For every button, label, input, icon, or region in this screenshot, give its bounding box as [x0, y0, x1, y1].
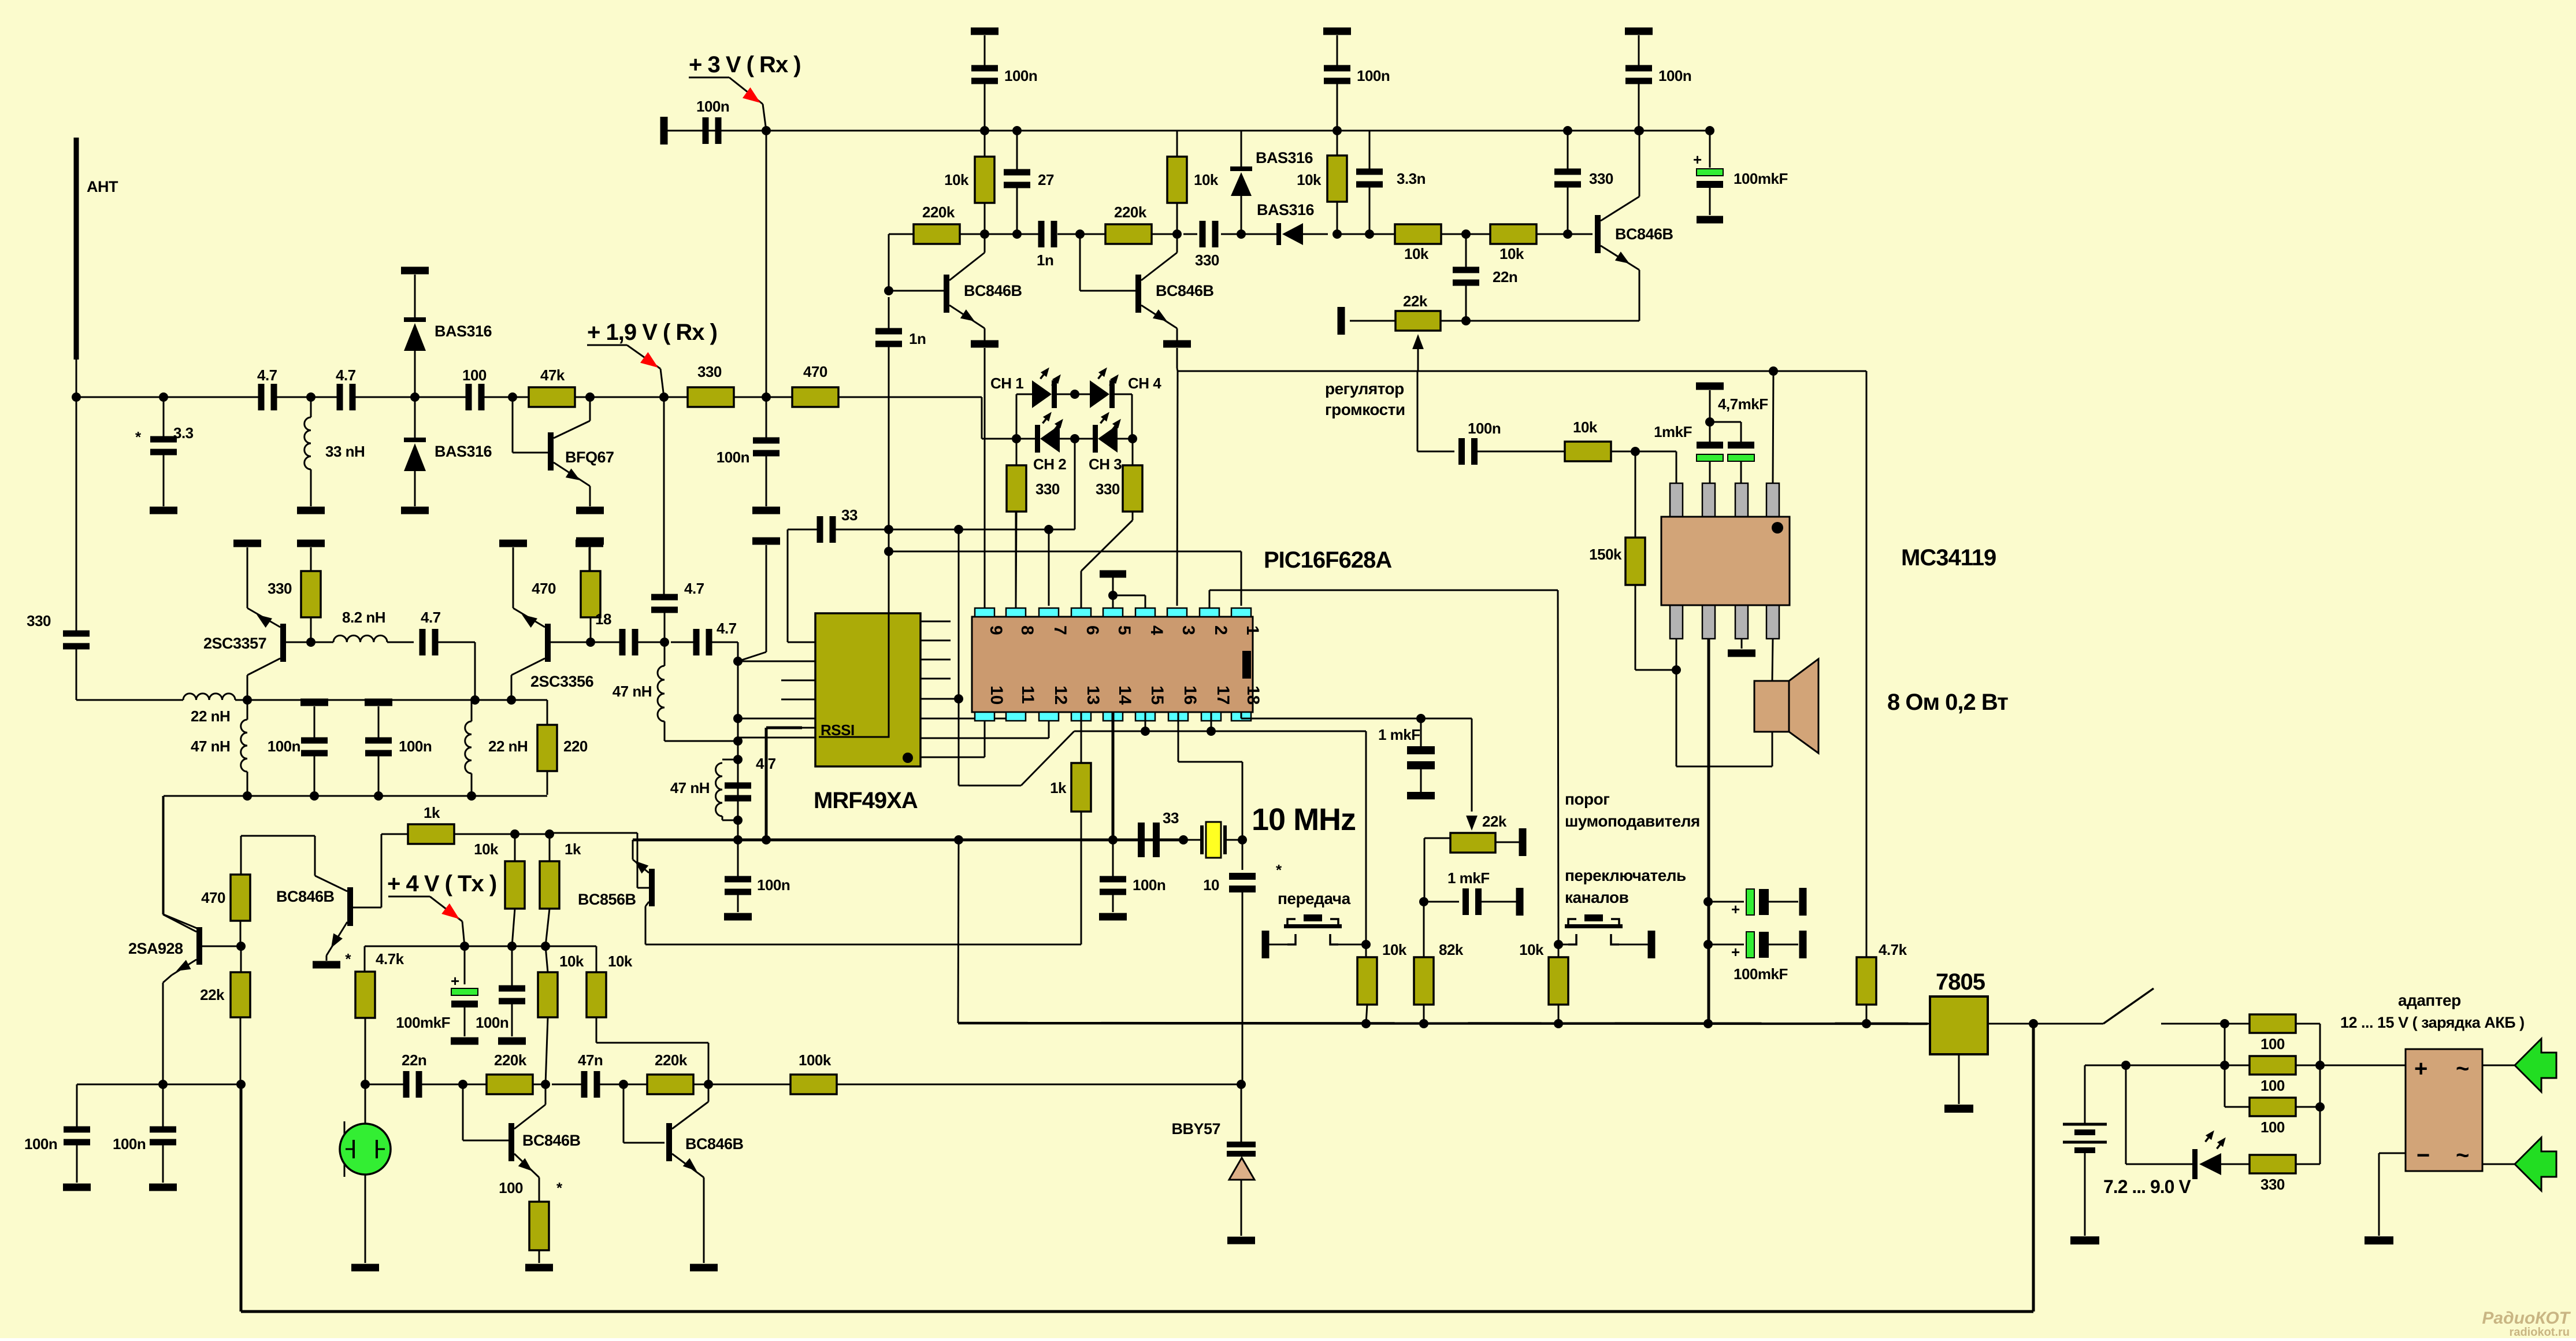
resistor 100 (chg c): [2250, 1098, 2296, 1116]
capacitor 100n (Tx supply): [511, 946, 513, 988]
node rail passacha: [1361, 940, 1371, 949]
wire RSSI drop through MRF: [888, 551, 890, 613]
inductor 47 nH (2SC3357 emitter): [247, 700, 248, 720]
node rail x1760: [1012, 126, 1022, 135]
node crystal right: [1238, 835, 1247, 844]
capacitor 100n (rail series left): [703, 117, 709, 144]
transistor BC846B amp1: [889, 290, 944, 292]
svg-text:5: 5: [1115, 625, 1134, 635]
svg-text:47n: 47n: [578, 1051, 603, 1069]
button transmit (peredacha): [1262, 931, 1270, 958]
svg-text:BFQ67: BFQ67: [565, 449, 614, 466]
svg-text:330: 330: [1195, 251, 1219, 269]
svg-text:16: 16: [1181, 686, 1200, 705]
PIC pin 9 pad: [975, 608, 994, 617]
svg-text:BAS316: BAS316: [1257, 201, 1315, 218]
svg-text:100n: 100n: [1468, 420, 1501, 437]
inductor 22 nH (horizontal): [76, 699, 183, 701]
svg-text:22k: 22k: [1403, 292, 1428, 310]
node pin5 supply: [1108, 591, 1118, 600]
PIC pin 3 pad: [1167, 608, 1187, 617]
svg-text:100: 100: [2261, 1118, 2285, 1136]
wire pad16 route: [1178, 712, 1179, 762]
bar supply 330 res: [297, 540, 325, 547]
node led col: [2121, 1061, 2130, 1070]
MRF right pins: [920, 621, 951, 623]
svg-text:47k: 47k: [540, 366, 565, 384]
wire pad15/PTT riser: [1365, 731, 1367, 944]
bar supply top column x2314: [1323, 28, 1351, 35]
wire Tx supply riser: [163, 796, 165, 914]
node cap33 right: [884, 525, 893, 534]
resistor 470 (2SA928 collector load): [231, 875, 250, 921]
wire RF row to LED block: [981, 397, 983, 439]
wire volume line: [1177, 368, 1178, 371]
electrolytic 100mkF b: [1703, 940, 1713, 949]
wire pad6 to CH3 diagonal: [1081, 571, 1082, 608]
svg-text:47 nH: 47 nH: [670, 779, 710, 797]
node pin1 bottom: [1672, 665, 1681, 675]
svg-text:BAS316: BAS316: [1256, 149, 1313, 166]
node +1.9V tap: [659, 392, 669, 402]
wire adapter out right b: [2482, 1164, 2515, 1165]
node 1k right: [545, 829, 554, 839]
node 7805 in: [2029, 1019, 2038, 1028]
wire pad3 riser: [1177, 371, 1178, 606]
svg-text:+: +: [1731, 901, 1740, 918]
node amp3 base: [1563, 229, 1572, 239]
svg-text:BAS316: BAS316: [435, 443, 492, 460]
wire y954 to PIC pin1: [889, 551, 1241, 553]
inductor 47 nH (mesh1 vertical): [664, 642, 666, 666]
capacitor 22n: [1453, 267, 1479, 273]
wire amp1 emitter to pad9: [984, 348, 986, 608]
svg-text:РадиоКОТ: РадиоКОТ: [2482, 1309, 2571, 1328]
svg-text:PIC16F628A: PIC16F628A: [1264, 547, 1391, 573]
node bus d (pin14): [1108, 835, 1118, 844]
LED CH1: [1032, 380, 1052, 408]
node battery+: [2220, 1019, 2229, 1028]
resistor 10k (squelch filter 1): [1395, 224, 1441, 244]
svg-text:−: −: [2417, 1143, 2429, 1168]
svg-text:12: 12: [1051, 686, 1070, 705]
svg-text:10k: 10k: [944, 171, 969, 188]
LED CH4: [1090, 380, 1109, 408]
resistor 150k (MC feedback): [1635, 451, 1636, 538]
diode BAS316 lower (to ground): [404, 438, 426, 442]
svg-text:100n: 100n: [1357, 67, 1390, 84]
node 330/470 row: [762, 392, 771, 402]
node mesh x1277 c: [733, 736, 743, 746]
svg-text:*: *: [556, 1179, 563, 1196]
resistor 220k (mic amp): [487, 1075, 533, 1094]
capacitor 18: [619, 629, 626, 655]
svg-text:100k: 100k: [799, 1051, 832, 1069]
wire +3V rail: [667, 130, 1710, 132]
capacitor 4.7 (RF coupling 2): [337, 384, 343, 410]
crystal 10 MHz: [1183, 839, 1202, 841]
PIC pin 7 pad: [1039, 608, 1059, 617]
wire amp2 base drop: [1079, 234, 1081, 291]
node bus a: [733, 835, 743, 844]
svg-text:33 nH: 33 nH: [325, 443, 365, 460]
capacitor 100n (mic gnd b): [162, 1084, 164, 1129]
svg-text:18: 18: [595, 610, 611, 628]
wire adapter out right a: [2482, 1065, 2515, 1066]
wire RF row: [76, 397, 260, 398]
svg-text:27: 27: [1038, 171, 1054, 188]
svg-text:6: 6: [1083, 625, 1102, 635]
svg-text:~: ~: [2456, 1143, 2469, 1168]
svg-text:1n: 1n: [1037, 251, 1053, 269]
svg-text:7805: 7805: [1936, 969, 1985, 995]
resistor 10k (PTT pulldown): [1365, 944, 1367, 957]
svg-text:330: 330: [1096, 480, 1120, 498]
svg-text:BC846B: BC846B: [964, 282, 1022, 299]
svg-text:BC856B: BC856B: [578, 891, 636, 908]
node volume to pin4: [1769, 366, 1778, 376]
svg-text:10k: 10k: [1404, 245, 1429, 262]
svg-text:3.3n: 3.3n: [1397, 170, 1426, 187]
transistor BC846B amp2: [1135, 275, 1141, 313]
resistor 470 (RF row): [792, 387, 838, 407]
node +4V tap: [460, 942, 469, 951]
capacitor 1 mkF (pad18 shunt): [1420, 718, 1422, 748]
node pad7 riser: [1044, 525, 1053, 534]
bar supply tap BFQ67 emitter: [576, 538, 604, 545]
node bus c: [954, 835, 963, 844]
node 1mkF tap: [1416, 714, 1426, 723]
node LED bot mid: [1070, 434, 1079, 443]
svg-text:MRF49XA: MRF49XA: [814, 788, 918, 813]
capacitor 100n column x1704: [971, 65, 998, 72]
svg-text:3.3: 3.3: [173, 424, 194, 442]
transistor BC846B (mod1): [352, 907, 381, 909]
resistor 10k (mod2 b): [587, 972, 606, 1017]
LED CH3: [1098, 425, 1118, 453]
svg-text:регулятор: регулятор: [1325, 380, 1404, 398]
node MRF pin tap: [954, 694, 963, 703]
svg-text:BBY57: BBY57: [1171, 1120, 1220, 1138]
node chg col a: [2315, 1061, 2325, 1070]
node chg col b: [2315, 1102, 2325, 1112]
svg-text:330: 330: [268, 580, 292, 597]
svg-text:22n: 22n: [1493, 268, 1517, 286]
IC MC34119: [1670, 483, 1683, 517]
diode BAS316 vertical (detector): [1241, 131, 1242, 166]
capacitor 33 (to MRF): [817, 516, 823, 543]
transistor BC846B (mod2): [666, 1123, 672, 1161]
capacitor 100n (bypass b): [365, 699, 392, 706]
svg-text:100mkF: 100mkF: [1734, 965, 1788, 983]
battery 7.2-9.0V: [2084, 1065, 2086, 1124]
svg-text:330: 330: [1589, 170, 1613, 187]
svg-text:8: 8: [1018, 625, 1037, 635]
svg-text:radiokot.ru: radiokot.ru: [2510, 1326, 2570, 1338]
node rail 4.7k: [1862, 1019, 1871, 1028]
wire to mod2 base: [623, 1084, 625, 1143]
button channel switch: [1558, 944, 1569, 946]
svg-text:220k: 220k: [655, 1051, 688, 1069]
svg-text:переключатель: переключатель: [1565, 866, 1686, 884]
wire +5V rail y1770 (thick): [958, 1023, 1928, 1024]
svg-text:1: 1: [1243, 625, 1262, 635]
resistor 100k: [790, 1075, 837, 1094]
node rail PTT: [1361, 1019, 1371, 1028]
svg-text:BC846B: BC846B: [1156, 282, 1214, 299]
node RF1: [159, 392, 168, 402]
svg-text:+: +: [1693, 151, 1702, 168]
svg-text:1 mkF: 1 mkF: [1447, 869, 1490, 887]
node y954: [884, 547, 893, 556]
svg-text:+: +: [1731, 943, 1740, 961]
wire adapter -: [2379, 1153, 2406, 1154]
svg-text:7: 7: [1051, 625, 1070, 635]
capacitor 100mkF (rail): [1705, 126, 1714, 135]
wire pad14 thick: [1112, 712, 1115, 840]
wire adapter +: [2320, 1065, 2406, 1066]
electrolytic 100mkF a: [1703, 897, 1713, 906]
svg-text:150k: 150k: [1589, 546, 1622, 563]
svg-text:4.7: 4.7: [684, 580, 704, 597]
svg-text:18: 18: [1244, 686, 1263, 705]
node BAS316 junction: [410, 392, 420, 402]
resistor 4.7k (supply): [1866, 957, 1868, 958]
svg-text:1 mkF: 1 mkF: [1378, 726, 1420, 743]
svg-text:7.2 ... 9.0 V: 7.2 ... 9.0 V: [2103, 1176, 2191, 1197]
node mesh x1277 a: [733, 657, 743, 666]
wire battery row: [2085, 1065, 2126, 1066]
node BFQ67 collector: [585, 392, 595, 402]
antenna ANT: [74, 138, 79, 360]
trimmer 22k (volume): [1395, 311, 1441, 331]
wire RSSI thick stub: [766, 727, 802, 729]
svg-text:1k: 1k: [424, 804, 440, 821]
node mic row a: [158, 1080, 168, 1089]
adapter box: [2406, 1049, 2482, 1171]
capacitor 100n (bypass a): [300, 699, 328, 706]
node 470 bottom: [586, 638, 595, 647]
node LED top mid: [1070, 390, 1079, 399]
node detector in: [1237, 229, 1246, 239]
LED CH2: [1040, 425, 1060, 453]
capacitor 100n column x2314: [1324, 65, 1350, 72]
green arrow a: [2515, 1039, 2556, 1092]
wire MC pin1 top: [1676, 451, 1677, 483]
wire bottom bus (thick): [240, 1084, 243, 1312]
svg-text:22n: 22n: [402, 1051, 426, 1069]
svg-text:10: 10: [1203, 876, 1219, 894]
wire LED left branch: [1016, 394, 1018, 439]
PIC pin 16 pad: [1168, 712, 1188, 721]
electrolytic 4,7mkF (pin2): [1696, 383, 1724, 390]
PIC pin 8 pad: [1006, 608, 1026, 617]
node rail x2837: [1635, 126, 1644, 135]
PIC pin 4 pad: [1135, 608, 1155, 617]
svg-text:470: 470: [201, 889, 225, 906]
node 2SC3357 lower: [243, 695, 252, 705]
node rail x2713: [1563, 126, 1572, 135]
IC PIC16F628A: [972, 617, 1253, 712]
capacitor 1n (amp1 base to RSSI net): [875, 328, 902, 335]
svg-text:100n: 100n: [1004, 67, 1037, 84]
PIC pin 11 pad: [1006, 712, 1026, 721]
capacitor 47n: [581, 1071, 588, 1098]
svg-text:4.7: 4.7: [421, 609, 441, 626]
IC MRF49XA: [815, 613, 920, 766]
svg-text:82k: 82k: [1439, 941, 1464, 958]
svg-text:100n: 100n: [113, 1135, 146, 1153]
capacitor 100n (pin13 area): [737, 840, 739, 879]
svg-text:каналов: каналов: [1565, 888, 1629, 906]
transistor BC846B amp3: [1595, 215, 1601, 253]
resistor 330 (chg led): [2250, 1155, 2296, 1173]
svg-text:1k: 1k: [1050, 779, 1067, 797]
inductor 33 nH to ground: [310, 397, 312, 417]
node LED bot right: [1128, 434, 1137, 443]
svg-text:100n: 100n: [24, 1135, 57, 1153]
node mic row b: [236, 1080, 246, 1089]
resistor 220k (amp2): [1105, 224, 1152, 244]
terminal bar rail left end: [660, 117, 668, 145]
svg-text:передача: передача: [1278, 890, 1351, 907]
PIC pin 17 pad: [1201, 712, 1221, 721]
wire cap33 to y954: [888, 529, 890, 551]
svg-text:2SC3357: 2SC3357: [203, 635, 266, 652]
svg-text:2: 2: [1211, 625, 1230, 635]
resistor 10k (amp2 collector): [1167, 157, 1187, 203]
svg-text:BC846B: BC846B: [1615, 225, 1673, 243]
trimmer 22k (squelch): [1450, 833, 1495, 853]
resistor 10k (Tx): [514, 834, 516, 862]
node x1659 on cap33 line: [954, 525, 963, 534]
svg-text:10k: 10k: [559, 953, 584, 970]
inductor 47 nH (mesh2) + capacitor 4.7 parallel: [733, 755, 743, 764]
svg-text:100n: 100n: [1658, 67, 1691, 84]
svg-text:+: +: [451, 972, 459, 990]
capacitor 27: [1004, 169, 1030, 176]
PIC pin 6 pad: [1071, 608, 1091, 617]
resistor 220: [547, 700, 548, 725]
switch power: [2033, 1023, 2103, 1025]
svg-text:22 nH: 22 nH: [488, 738, 528, 755]
node det2: [1365, 229, 1374, 239]
wire audio to MC input: [1417, 371, 1419, 451]
node x822: [470, 695, 480, 705]
LED charge indicator: [2125, 1065, 2127, 1164]
wire mesh col x1277: [737, 642, 739, 820]
svg-text:BAS316: BAS316: [435, 323, 492, 340]
svg-text:100n: 100n: [268, 738, 300, 755]
svg-text:1k: 1k: [565, 840, 581, 858]
node LED bot left: [1012, 434, 1021, 443]
svg-text:100mkF: 100mkF: [1734, 170, 1788, 187]
microphone (electret): [365, 1084, 366, 1124]
resistor 10k (audio in): [1565, 442, 1611, 461]
node 2SA928 base: [236, 942, 246, 951]
capacitor 3.3n: [1356, 169, 1383, 175]
transistor BC856B: [649, 869, 655, 906]
svg-text:8 Ом 0,2 Вт: 8 Ом 0,2 Вт: [1887, 690, 2008, 715]
capacitor 100mkF (Tx supply): [464, 946, 466, 984]
capacitor 1n (coupling amp1->amp2): [1038, 221, 1045, 247]
node 33nH tap: [306, 392, 315, 402]
wire drop x822: [474, 642, 476, 700]
svg-text:4.7: 4.7: [336, 366, 356, 384]
resistor 10k (squelch filter 2): [1490, 224, 1536, 244]
svg-text:22k: 22k: [1482, 813, 1507, 830]
transistor 2SC3356: [545, 624, 551, 662]
node chsw: [1554, 940, 1563, 949]
capacitor 33 (crystal series): [1138, 823, 1145, 857]
capacitor 330 (amp3 collector): [1554, 169, 1581, 175]
bar supply tap 100n column: [752, 538, 780, 545]
node mic amp col: [541, 1080, 550, 1089]
svg-text:1n: 1n: [909, 330, 926, 347]
node filter mid: [1461, 229, 1471, 239]
wire thick riser x1326: [765, 728, 768, 840]
wire 4.7k riser: [364, 946, 366, 972]
bar supply top column x1704: [971, 28, 999, 35]
resistor 47k: [529, 387, 575, 407]
inductor 22 nH vertical: [471, 700, 473, 721]
node y1375 c: [374, 791, 383, 801]
node pad15 riser: [1141, 727, 1150, 736]
node y1375 d: [467, 791, 476, 801]
capacitor 4.7 (MRF mesh series): [693, 629, 700, 655]
svg-text:MC34119: MC34119: [1901, 545, 1996, 571]
node 10k top: [510, 829, 519, 839]
capacitor 100n (decoupling +1.9V node): [766, 397, 767, 440]
transistor 2SC3357: [280, 624, 286, 662]
node 150k tap: [1631, 447, 1640, 456]
svg-text:220: 220: [563, 738, 588, 755]
wire MC pin2 thick column: [1708, 639, 1710, 1024]
node 82k top: [1419, 897, 1428, 906]
svg-text:~: ~: [2456, 1056, 2469, 1081]
node det1: [1332, 229, 1342, 239]
svg-text:100n: 100n: [696, 98, 729, 115]
svg-text:10: 10: [987, 686, 1006, 705]
svg-text:10k: 10k: [1519, 941, 1544, 958]
svg-text:адаптер: адаптер: [2398, 991, 2461, 1009]
resistor 1k (Tx bias): [381, 834, 383, 907]
capacitor 4.7 (RF coupling 1): [258, 384, 265, 410]
resistor 1k vertical (Tx): [549, 834, 551, 862]
capacitor 1 mkF (squelch): [1424, 901, 1459, 903]
wire pad8 riser: [1015, 512, 1017, 608]
node mic amp base: [458, 1080, 467, 1089]
wire feedback left: [889, 234, 914, 235]
svg-text:13: 13: [1083, 686, 1103, 705]
svg-text:+ 4 V ( Tx ): + 4 V ( Tx ): [387, 871, 496, 897]
transistor 2SA928: [240, 836, 242, 875]
capacitor 100 (RF coupling 3): [466, 384, 472, 410]
node mic top: [361, 1080, 370, 1089]
node rail x2836: [1634, 126, 1643, 135]
node rail chsw: [1554, 1019, 1563, 1028]
resistor 10k (amp1 collector): [975, 157, 994, 203]
resistor 22k (2SA928): [240, 946, 242, 972]
node BBY57 top: [1237, 1080, 1246, 1089]
svg-text:громкости: громкости: [1325, 401, 1405, 418]
svg-text:*: *: [135, 428, 142, 446]
svg-text:33: 33: [841, 506, 858, 524]
svg-text:8.2 nH: 8.2 nH: [342, 609, 385, 626]
resistor 100 (chg a): [2250, 1014, 2296, 1033]
svg-text:100n: 100n: [476, 1014, 508, 1031]
svg-text:4.7k: 4.7k: [1879, 941, 1907, 958]
